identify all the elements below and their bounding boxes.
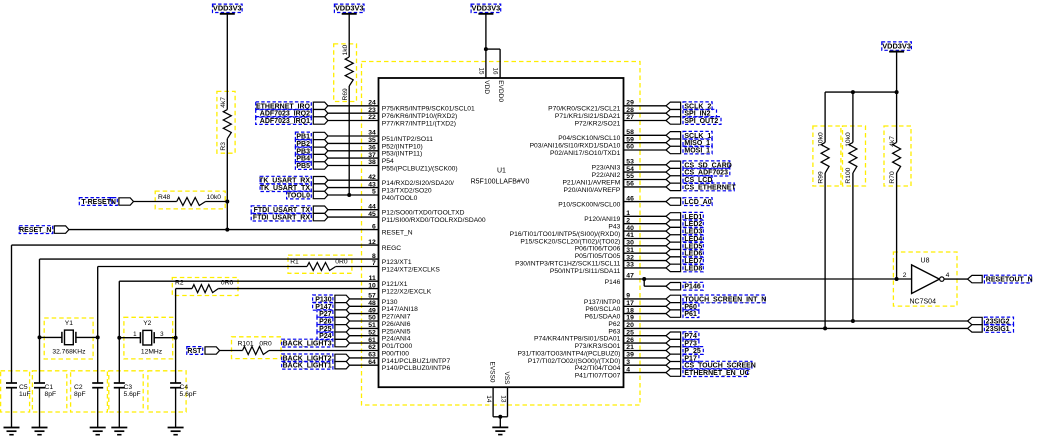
- svg-text:23: 23: [368, 107, 376, 114]
- svg-text:P06/TI06/TO06: P06/TI06/TO06: [575, 246, 621, 253]
- svg-text:P25/ANI5: P25/ANI5: [382, 328, 411, 335]
- svg-text:VDD3V3: VDD3V3: [882, 42, 911, 51]
- svg-text:P121/X1: P121/X1: [382, 281, 408, 288]
- svg-text:VDD3V3: VDD3V3: [335, 4, 364, 13]
- svg-text:51: 51: [368, 322, 376, 329]
- svg-text:P70/KR0/SCK21/SCL21: P70/KR0/SCK21/SCL21: [548, 106, 620, 113]
- svg-text:P61: P61: [684, 311, 697, 318]
- svg-text:2: 2: [903, 272, 907, 279]
- svg-text:LED7: LED7: [684, 258, 702, 265]
- svg-text:LED5: LED5: [684, 243, 702, 250]
- svg-text:R99: R99: [817, 171, 824, 184]
- svg-text:64: 64: [368, 359, 376, 366]
- svg-text:P71/KR1/SI21/SDA21: P71/KR1/SI21/SDA21: [555, 113, 621, 120]
- svg-text:U1: U1: [497, 168, 506, 175]
- svg-text:R3: R3: [220, 142, 227, 151]
- svg-text:P54: P54: [382, 158, 394, 165]
- svg-text:P23/ANI3: P23/ANI3: [592, 165, 621, 172]
- svg-text:P130: P130: [382, 299, 398, 306]
- svg-text:12MHz: 12MHz: [141, 349, 163, 356]
- svg-text:P43: P43: [608, 224, 620, 231]
- svg-text:VDD3V3: VDD3V3: [472, 4, 501, 13]
- svg-text:C3: C3: [124, 384, 133, 391]
- svg-text:34: 34: [368, 130, 376, 137]
- svg-text:5.6pF: 5.6pF: [180, 391, 197, 398]
- svg-text:BACK_LIGHT3: BACK_LIGHT3: [283, 341, 332, 348]
- svg-text:P02/ANI17/SO10/TXD1: P02/ANI17/SO10/TXD1: [550, 150, 621, 157]
- svg-text:P42/TI04/TO04: P42/TI04/TO04: [575, 365, 621, 372]
- svg-text:P14/RXD2/SI20/SDA20/: P14/RXD2/SI20/SDA20/: [382, 180, 454, 187]
- svg-text:8pF: 8pF: [45, 391, 57, 398]
- svg-text:P74/KR4/INTP8/SI01/SDA01: P74/KR4/INTP8/SI01/SDA01: [534, 336, 621, 343]
- svg-text:Y1: Y1: [65, 320, 73, 327]
- svg-text:P63: P63: [608, 328, 620, 335]
- svg-text:1uF: 1uF: [19, 391, 31, 398]
- svg-text:32.768KHz: 32.768KHz: [52, 349, 86, 356]
- svg-text:22: 22: [368, 114, 376, 121]
- svg-text:48: 48: [368, 300, 376, 307]
- svg-text:P21/ANI1/AVREFM: P21/ANI1/AVREFM: [562, 179, 620, 186]
- svg-text:P22/ANI2: P22/ANI2: [592, 172, 621, 179]
- svg-text:P17/TI02/TO02/(SO00)/(TXD0): P17/TI02/TO02/(SO00)/(TXD0): [528, 358, 620, 365]
- svg-text:VSS: VSS: [503, 372, 510, 386]
- svg-text:0R0: 0R0: [221, 280, 234, 287]
- svg-text:P11/SI00/RXD0/TOOLRXD/SDA00: P11/SI00/RXD0/TOOLRXD/SDA00: [382, 217, 486, 224]
- svg-text:15: 15: [477, 68, 484, 76]
- svg-text:0R0: 0R0: [259, 341, 272, 348]
- svg-text:CS_ETHERNET: CS_ETHERNET: [684, 184, 736, 191]
- svg-text:P30/INTP3/RTC1HZ/SCK11/SCL11: P30/INTP3/RTC1HZ/SCK11/SCL11: [515, 261, 620, 268]
- svg-text:TK_USART_TX: TK_USART_TX: [260, 185, 311, 192]
- svg-text:16: 16: [492, 68, 499, 76]
- svg-text:MOSI_1: MOSI_1: [684, 148, 710, 155]
- svg-text:ADF7023_IRQ1: ADF7023_IRQ1: [260, 118, 310, 125]
- svg-text:63: 63: [368, 352, 376, 359]
- svg-text:45: 45: [368, 211, 376, 218]
- svg-text:P77/KR7/INTP11/(TXD2): P77/KR7/INTP11/(TXD2): [382, 120, 456, 127]
- svg-text:P12/SO00/TXD0/TOOLTXD: P12/SO00/TXD0/TOOLTXD: [382, 210, 465, 217]
- svg-text:P20/ANI0/AVREFP: P20/ANI0/AVREFP: [564, 187, 621, 194]
- svg-text:LED1: LED1: [684, 214, 702, 221]
- svg-text:P10/SCK00N/SCL00: P10/SCK00N/SCL00: [558, 202, 620, 209]
- svg-text:EVSS0: EVSS0: [488, 362, 495, 383]
- svg-text:LED2: LED2: [684, 221, 702, 228]
- svg-text:R70: R70: [889, 171, 896, 184]
- svg-text:P24/ANI4: P24/ANI4: [382, 336, 411, 343]
- svg-text:P51/INTP2/SO11: P51/INTP2/SO11: [382, 136, 433, 143]
- svg-text:P26/ANI6: P26/ANI6: [382, 321, 411, 328]
- svg-text:10k0: 10k0: [817, 132, 824, 147]
- svg-text:37: 37: [368, 152, 376, 159]
- svg-text:5.6pF: 5.6pF: [124, 391, 141, 398]
- svg-text:14: 14: [485, 395, 492, 403]
- svg-text:LED3: LED3: [684, 229, 702, 236]
- svg-text:P05/TI05/TO05: P05/TI05/TO05: [575, 253, 621, 260]
- svg-text:P76/KR6/INTP10/(RXD2): P76/KR6/INTP10/(RXD2): [382, 113, 457, 120]
- svg-text:P55/(PCLBUZ1)/(SCK00): P55/(PCLBUZ1)/(SCK00): [382, 165, 458, 172]
- svg-text:C4: C4: [180, 384, 189, 391]
- svg-text:0R0: 0R0: [335, 258, 348, 265]
- svg-text:P130: P130: [315, 296, 331, 303]
- svg-text:BACK_LIGHT1: BACK_LIGHT1: [283, 363, 332, 370]
- svg-text:FTDI_USART_RX: FTDI_USART_RX: [253, 215, 311, 222]
- svg-text:10k0: 10k0: [845, 132, 852, 147]
- svg-text:8pF: 8pF: [74, 391, 86, 398]
- svg-text:P03/ANI16/SI10/RXD1/SDA10: P03/ANI16/SI10/RXD1/SDA10: [530, 143, 621, 150]
- svg-text:U8: U8: [921, 257, 930, 264]
- svg-text:R5F100LLAFB#V0: R5F100LLAFB#V0: [471, 179, 530, 186]
- svg-text:P73/KR3/SO01: P73/KR3/SO01: [575, 343, 621, 350]
- svg-text:P00/TI00: P00/TI00: [382, 350, 409, 357]
- svg-text:4k7: 4k7: [889, 136, 896, 147]
- svg-text:VDD3V3: VDD3V3: [213, 4, 242, 13]
- svg-text:P146: P146: [684, 284, 700, 291]
- svg-text:P124/XT2/EXCLKS: P124/XT2/EXCLKS: [382, 266, 441, 273]
- svg-text:P40/TOOL0: P40/TOOL0: [382, 195, 418, 202]
- svg-text:RESET_N: RESET_N: [382, 230, 413, 237]
- svg-text:24: 24: [368, 100, 376, 107]
- svg-text:4: 4: [946, 272, 950, 279]
- svg-text:C1: C1: [45, 384, 54, 391]
- svg-text:P122/X2/EXCLK: P122/X2/EXCLK: [382, 289, 432, 296]
- svg-text:P52/(INTP10): P52/(INTP10): [382, 143, 423, 150]
- svg-text:REGC: REGC: [382, 245, 401, 252]
- svg-text:TOOL0: TOOL0: [287, 193, 310, 200]
- svg-text:57: 57: [368, 293, 376, 300]
- svg-text:42: 42: [368, 174, 376, 181]
- svg-text:SPI_OUT2: SPI_OUT2: [684, 118, 718, 125]
- svg-text:P01/TO00: P01/TO00: [382, 343, 413, 350]
- svg-text:P146: P146: [605, 279, 621, 286]
- svg-text:P15/SCK20/SCL20/(TI02)/(TO02): P15/SCK20/SCL20/(TI02)/(TO02): [520, 238, 620, 245]
- svg-text:P61/SDAA0: P61/SDAA0: [585, 314, 621, 321]
- svg-text:VDD: VDD: [483, 80, 490, 94]
- svg-text:P27/ANI7: P27/ANI7: [382, 314, 411, 321]
- svg-text:LED6: LED6: [684, 251, 702, 258]
- svg-text:T-RESETN: T-RESETN: [81, 199, 116, 206]
- svg-text:LCD_A0: LCD_A0: [684, 199, 711, 206]
- svg-text:R2: R2: [175, 280, 184, 287]
- svg-text:49: 49: [368, 307, 376, 314]
- svg-text:R101: R101: [238, 341, 254, 348]
- svg-text:P123/XT1: P123/XT1: [382, 259, 412, 266]
- svg-text:P120/ANI19: P120/ANI19: [584, 216, 620, 223]
- svg-text:P50/INTP1/SI11/SDA11: P50/INTP1/SI11/SDA11: [550, 268, 621, 275]
- svg-text:50: 50: [368, 315, 376, 322]
- svg-text:LED4: LED4: [684, 236, 702, 243]
- svg-text:R100: R100: [845, 167, 852, 183]
- svg-text:5: 5: [372, 189, 376, 196]
- svg-text:R48: R48: [158, 194, 171, 201]
- svg-text:Y2: Y2: [143, 320, 151, 327]
- svg-text:52: 52: [368, 329, 376, 336]
- svg-text:NC7S04: NC7S04: [910, 298, 937, 305]
- svg-text:44: 44: [368, 203, 376, 210]
- svg-text:3: 3: [160, 331, 164, 338]
- svg-text:R1: R1: [290, 258, 299, 265]
- svg-text:ETHERNET_EN_UC: ETHERNET_EN_UC: [684, 370, 749, 377]
- svg-text:13: 13: [499, 395, 506, 403]
- svg-text:35: 35: [368, 137, 376, 144]
- svg-text:P_25: P_25: [684, 348, 700, 355]
- svg-text:P62: P62: [608, 321, 620, 328]
- svg-text:38: 38: [368, 159, 376, 166]
- svg-text:10k0: 10k0: [207, 194, 222, 201]
- svg-text:P60/SCLA0: P60/SCLA0: [585, 306, 620, 313]
- svg-text:4k7: 4k7: [220, 97, 227, 108]
- svg-text:C2: C2: [74, 384, 83, 391]
- svg-text:1: 1: [133, 331, 137, 338]
- svg-text:P75/KR5/INTP9/SCK01/SCL01: P75/KR5/INTP9/SCK01/SCL01: [382, 106, 475, 113]
- svg-text:23SIG1: 23SIG1: [986, 326, 1010, 333]
- svg-text:P41/TI07/TO07: P41/TI07/TO07: [575, 373, 621, 380]
- svg-text:C5: C5: [19, 384, 28, 391]
- svg-text:R69: R69: [342, 88, 349, 101]
- svg-text:RST: RST: [187, 348, 202, 355]
- svg-text:61: 61: [368, 337, 376, 344]
- svg-text:EVDD0: EVDD0: [497, 80, 504, 102]
- svg-text:P13/TXD2/SO20: P13/TXD2/SO20: [382, 188, 432, 195]
- svg-text:PB5: PB5: [296, 163, 310, 170]
- svg-text:1k0: 1k0: [342, 44, 349, 55]
- svg-text:P04/SCK10N/SCL10: P04/SCK10N/SCL10: [558, 135, 620, 142]
- svg-text:RESET_N: RESET_N: [19, 227, 51, 234]
- svg-text:P72/KR2/SO21: P72/KR2/SO21: [575, 120, 621, 127]
- svg-text:P16/TI01/TO01/INTP5/(SI00)/(RX: P16/TI01/TO01/INTP5/(SI00)/(RXD0): [510, 231, 621, 238]
- svg-text:P141/PCLBUZ1/INTP7: P141/PCLBUZ1/INTP7: [382, 358, 451, 365]
- svg-text:P31/TI03/TO03/INTP4/(PCLBUZ0): P31/TI03/TO03/INTP4/(PCLBUZ0): [517, 350, 620, 357]
- svg-text:36: 36: [368, 145, 376, 152]
- svg-text:P147/ANI18: P147/ANI18: [382, 306, 418, 313]
- svg-text:43: 43: [368, 181, 376, 188]
- svg-text:RESETOUT_N: RESETOUT_N: [986, 277, 1033, 284]
- svg-text:P137/INTP0: P137/INTP0: [584, 299, 621, 306]
- svg-text:LED8: LED8: [684, 265, 702, 272]
- svg-text:P53/(INTP11): P53/(INTP11): [382, 151, 422, 158]
- svg-text:P140/PCLBUZ0/INTP6: P140/PCLBUZ0/INTP6: [382, 365, 451, 372]
